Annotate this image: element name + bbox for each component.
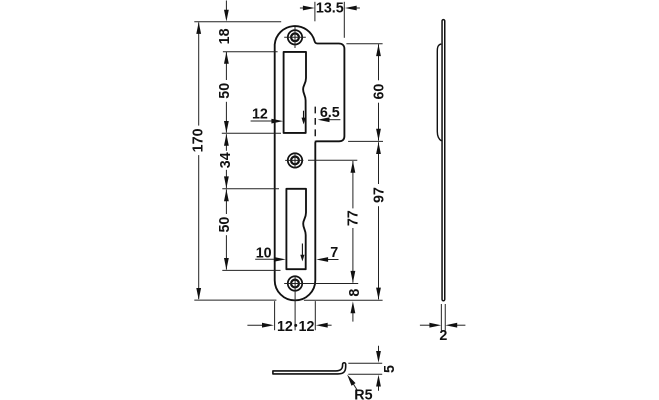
svg-text:170: 170 <box>190 128 206 152</box>
svg-text:12: 12 <box>277 319 293 335</box>
svg-text:8: 8 <box>347 289 363 297</box>
svg-text:R5: R5 <box>354 388 372 400</box>
svg-text:12: 12 <box>299 319 315 335</box>
svg-text:10: 10 <box>256 246 272 262</box>
svg-text:7: 7 <box>330 245 338 261</box>
svg-text:2: 2 <box>439 328 447 344</box>
svg-text:50: 50 <box>217 217 233 233</box>
svg-text:77: 77 <box>346 210 362 226</box>
svg-text:50: 50 <box>217 83 233 99</box>
svg-text:5: 5 <box>382 365 398 373</box>
svg-text:97: 97 <box>372 187 388 203</box>
svg-text:60: 60 <box>372 84 388 100</box>
svg-text:18: 18 <box>217 28 233 44</box>
svg-text:12: 12 <box>252 107 268 123</box>
svg-text:6.5: 6.5 <box>320 105 340 121</box>
svg-text:34: 34 <box>218 152 234 168</box>
svg-text:13.5: 13.5 <box>316 0 344 16</box>
